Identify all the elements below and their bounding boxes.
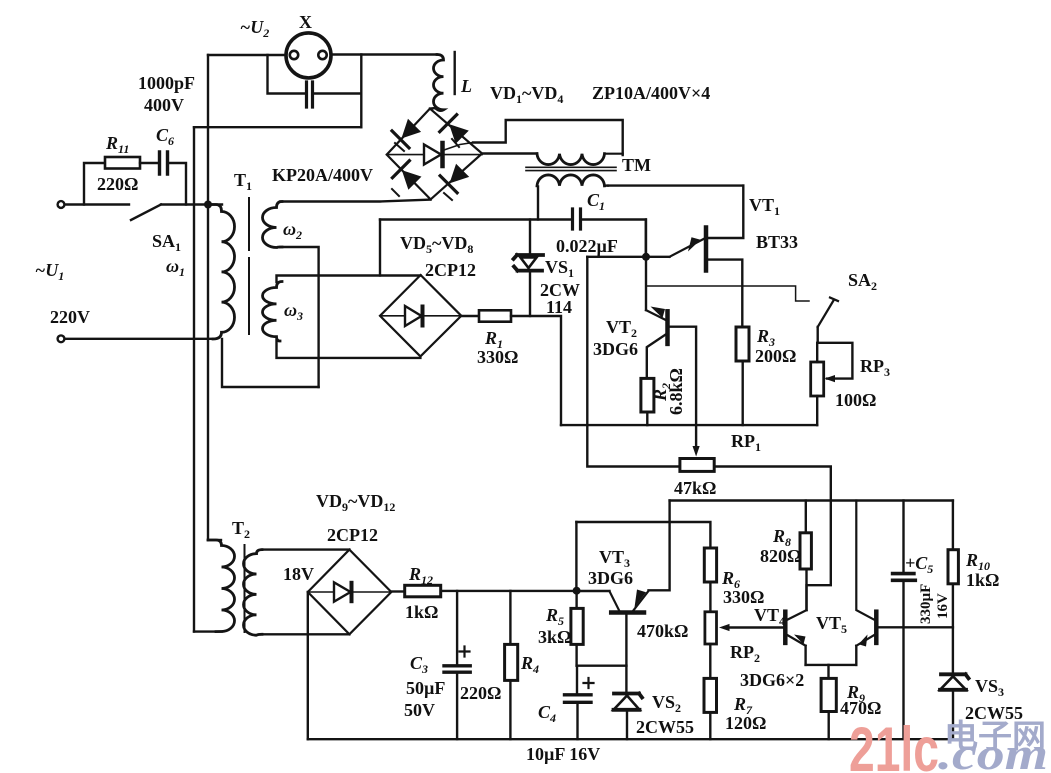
RP3 wiper arrow [825,375,836,382]
wire upper input to SA1 [65,203,129,205]
svg-text:400V: 400V [144,95,184,115]
wire TM bottom-left down to C1 line [537,187,539,220]
svg-text:120Ω: 120Ω [725,713,766,733]
resistor R1 [479,310,511,321]
capacitor C3 [456,591,458,664]
wire RP1 right to VT4 collector column [714,467,831,611]
svg-text:~U2: ~U2 [240,17,269,40]
wire y127 to x194 [194,126,361,128]
zener diode VS2 2CW55 [614,694,642,698]
wire T2 sec bottom to VD9-12 bottom vertex [262,633,349,635]
svg-text:VT5: VT5 [816,613,847,636]
svg-text:VT2: VT2 [606,317,637,340]
capacitor C5 [902,501,904,573]
wire VT1 row to SA2 [646,286,809,301]
TM core [526,167,616,170]
wire R8 top to rail [805,501,807,533]
wire R6 to RP2 [709,582,711,612]
svg-text:ZP10A/400V×4: ZP10A/400V×4 [592,83,710,103]
svg-text:SA1: SA1 [152,231,181,254]
wire SA2 to RP3 wiper loop [818,327,853,379]
svg-text:114: 114 [546,297,572,317]
wire x208 to T2 primary top [208,539,221,541]
svg-text:3DG6: 3DG6 [588,568,633,588]
unijunction transistor VT1 BT33 [670,239,704,257]
transformer T2 core [244,545,246,632]
VD5-8 center diode [405,306,422,326]
svg-text:100Ω: 100Ω [835,390,876,410]
zener diode VS3 2CW55 [941,674,969,678]
svg-text:1kΩ: 1kΩ [966,570,999,590]
node B junction dot [642,253,650,261]
svg-text:RP3: RP3 [860,356,890,379]
rectifier bridge VD5-VD8 diamond [380,275,461,356]
wire rail y425 [561,424,817,426]
wire w3 bottom to VD5-8 bottom vertex [277,340,421,358]
wire R7 bottom to rail [709,712,711,739]
svg-text:C6: C6 [156,125,174,148]
wire KP right vertex to TM [482,152,537,154]
wire ground rail bottom [308,738,953,740]
wire vertical x194 long run [193,127,195,631]
wire socket X right [331,53,437,55]
svg-text:1kΩ: 1kΩ [405,602,438,622]
VD5-8 center line [380,315,461,317]
switch SA1 blade [131,205,161,221]
resistor R4 [509,591,511,645]
wire vertical x361 [360,55,362,128]
VD9-12 center diode [334,582,351,601]
svg-text:BT33: BT33 [756,232,798,252]
wire VD5-8 right to R1 [461,315,479,317]
svg-text:RP1: RP1 [731,431,761,454]
transistor VT5 [874,612,879,643]
svg-text:ω1: ω1 [166,256,185,279]
T2 primary winding [208,540,235,632]
wire R3 bottom to rail [742,361,744,425]
node C junction dot [573,587,581,595]
KP bridge center line [387,154,482,156]
svg-text:2CP12: 2CP12 [425,260,476,280]
resistor R9 [827,665,829,679]
node A junction dot [204,201,212,209]
wire VD9-12 left vertex down to ground rail [307,592,309,739]
wire R2 bottom to rail [646,412,648,425]
svg-text:50µF: 50µF [406,678,445,698]
svg-text:VD1~VD4: VD1~VD4 [490,83,563,106]
diode VD4 bottom-right edge [440,165,468,200]
svg-text:6.8kΩ: 6.8kΩ [666,368,686,415]
svg-text:C4: C4 [538,702,556,725]
wire x587 down to RP1 left [587,257,680,467]
svg-text:SA2: SA2 [848,270,877,293]
wire C1 right then down to node B [583,220,646,253]
wire to socket X left [208,54,286,56]
wire RP3 bottom to rail [816,396,818,425]
svg-text:VS1: VS1 [545,257,574,280]
VT2 base wire to RP1 wiper [669,327,696,449]
svg-text:220Ω: 220Ω [460,683,501,703]
terminal lower 220V input [58,335,65,342]
svg-text:C3: C3 [410,653,428,676]
VT3 base stem down [625,614,627,666]
resistor R6 [704,548,716,582]
svg-text:VT1: VT1 [749,195,780,218]
potentiometer RP2 [705,612,717,644]
wire base row to R5 [577,665,627,667]
transformer T1 label core [248,198,250,334]
svg-text:T2: T2 [232,518,250,541]
resistor R8 [800,533,811,569]
wire VT2 emitter node row [587,256,669,258]
wire w2 bottom to x318 down [280,247,319,387]
svg-text:VT4: VT4 [754,605,785,628]
VD9-12 center line [308,591,392,593]
wire RP3 top stem [816,343,818,362]
socket X [286,33,331,78]
resistor R3 [736,327,749,361]
terminal upper ~U1 input [58,201,65,208]
wire w3 top to VD5-8 top vertex [277,276,421,283]
wire RP2 bottom to R7 [709,644,711,678]
wire node B down to VT2 [645,220,647,311]
svg-text:2CP12: 2CP12 [327,525,378,545]
wire L bottom to KP bridge top [430,107,436,110]
RP2 wiper arrow wire to VT4 base [728,626,784,628]
svg-text:0.022µF: 0.022µF [556,236,618,256]
svg-text:~U1: ~U1 [35,260,64,283]
diode VD2 top-right edge [440,115,468,147]
svg-text:R12: R12 [408,564,433,587]
svg-text:VD9~VD12: VD9~VD12 [316,491,395,514]
svg-text:X: X [299,12,312,32]
transistor VT4 [783,612,788,643]
wire 1000pF cap branch left [268,55,305,94]
wire TM bottom-right end [605,184,609,186]
wire T2 sec top to VD9-12 top vertex [262,548,349,550]
svg-text:+C5: +C5 [905,553,933,576]
wire node C to R5 [575,591,577,609]
svg-text:TM: TM [622,155,651,175]
wire 220V lower input [65,338,215,340]
diode VD3 bottom-left edge [392,161,420,196]
wire SA1 to node A [161,203,222,205]
wire R11 to C6 [140,162,158,164]
wire x194 to T2 primary bottom [194,630,222,632]
VT1 base2 wire up [708,186,744,238]
thyristor gate wire to trigger [444,143,473,151]
svg-text:47kΩ: 47kΩ [674,478,716,498]
T2 secondary winding [243,550,262,636]
diode VD1 top-left edge [392,120,420,151]
TM primary bottom winding [537,175,605,186]
svg-text:220V: 220V [50,307,90,327]
svg-text:330Ω: 330Ω [723,587,764,607]
svg-text:1000pF: 1000pF [138,73,195,93]
svg-text:330µF: 330µF [918,584,934,624]
capacitor C4 [576,666,578,694]
inductor L core bar [454,52,456,94]
wire y522 row [576,522,710,548]
svg-text:ω2: ω2 [283,219,302,242]
capacitor C1 [573,209,581,229]
svg-text:3DG6×2: 3DG6×2 [740,670,804,690]
VT1 base1 wire down [708,260,743,327]
resistor R10 [952,501,954,550]
resistor R7 [704,678,717,712]
wire C1 row left (VD5-8 box top) [380,218,571,220]
svg-text:L: L [460,76,472,96]
wire vertical x208 down to T2 [207,205,209,541]
svg-text:3DG6: 3DG6 [593,339,638,359]
RP1 wiper arrow [693,446,700,457]
zener diode VS1 2CW114 [529,220,531,255]
wire TM bottom-right to VT1 base2 [608,184,743,186]
rectifier bridge VD9-VD12 diamond [308,550,392,635]
svg-text:18V: 18V [283,564,314,584]
VT3 collector bus to node C [577,590,610,592]
svg-text:R11: R11 [105,133,129,156]
pulse transformer TM secondary top winding [537,154,605,165]
thyristor bridge KP20A diamond [387,109,482,200]
potentiometer RP1 [680,459,714,472]
transistor VT2 3DG6 [646,310,666,320]
wire x576 down to node C [575,522,577,591]
T1 primary winding w1 [208,205,235,340]
svg-text:T1: T1 [234,170,252,193]
wire VT3 base to VS2 [625,666,627,692]
wire R1 right to x561 [511,316,561,425]
resistor R12 [405,585,441,597]
svg-text:.com: .com [938,728,1048,773]
emitter rail VT4-VT5 [806,664,857,666]
wire x669 down to VT3 emitter [649,501,670,591]
svg-text:21lc: 21lc [849,715,939,773]
svg-text:VS2: VS2 [652,692,681,715]
resistor R5 [571,608,583,644]
wire rail y500 [670,499,953,501]
svg-text:820Ω: 820Ω [760,546,801,566]
thyristor KP20A center device [424,145,441,165]
svg-text:470kΩ: 470kΩ [637,621,688,641]
wire R5 bottom [575,644,577,665]
transistor VT3 3DG6 [610,591,620,611]
wire trigger step from TM [473,120,623,155]
wire VD5-8 box left edge [379,220,381,276]
wire R11 branch left vertical [84,163,105,205]
T1 secondary w2 winding [263,202,283,248]
svg-text:2CW55: 2CW55 [636,717,694,737]
wire vertical x208 top run [207,55,209,205]
switch SA2 blade [818,298,838,328]
svg-text:10µF 16V: 10µF 16V [526,744,600,764]
capacitor 1000pF 400V [307,82,313,107]
svg-text:50V: 50V [404,700,435,720]
svg-text:R5: R5 [545,605,564,628]
svg-text:200Ω: 200Ω [755,346,796,366]
wire 1000pF right to x361 [315,92,361,94]
potentiometer RP3 [811,362,824,396]
wire R8 bottom to VT4 collector [805,569,807,610]
VT5 base wire to reference [878,626,953,628]
svg-text:16V: 16V [935,593,951,619]
watermark 21ic [849,715,1048,773]
resistor R11 [105,157,140,169]
svg-text:ω3: ω3 [284,300,303,323]
svg-text:R4: R4 [520,653,539,676]
svg-text:RP2: RP2 [730,642,760,665]
svg-text:VT3: VT3 [599,547,630,570]
T1 secondary w3 winding [262,282,282,342]
svg-text:C1: C1 [587,190,605,213]
svg-text:VS3: VS3 [975,676,1004,699]
svg-text:KP20A/400V: KP20A/400V [272,165,373,185]
resistor R2 [641,378,654,412]
wire C6 right down to main [170,163,187,205]
svg-text:VD5~VD8: VD5~VD8 [400,233,473,256]
svg-text:220Ω: 220Ω [97,174,138,194]
inductor L [434,55,444,111]
capacitor C6 [160,152,168,174]
wire bridge out to R12 [391,590,404,592]
wire w1 bottom down to y387 [222,339,319,387]
wire w2 top to KP bottom vertex [280,200,431,202]
main low-volt bus from R12 [441,590,577,592]
svg-text:330Ω: 330Ω [477,347,518,367]
svg-text:3kΩ: 3kΩ [538,627,571,647]
